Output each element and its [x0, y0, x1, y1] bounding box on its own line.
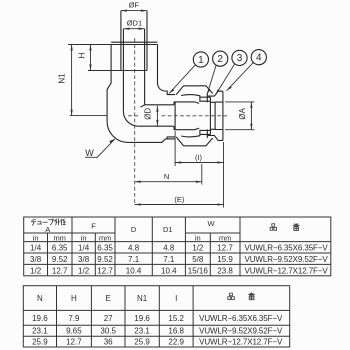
- svg-text:1/2: 1/2: [30, 267, 42, 276]
- svg-text:I: I: [175, 294, 177, 303]
- nut left skirt face: [174, 102, 176, 130]
- svg-text:VUWLR−6.35X6.35F−V: VUWLR−6.35X6.35F−V: [245, 244, 329, 253]
- callout circle 1: [169, 52, 208, 94]
- svg-text:mm: mm: [99, 234, 112, 243]
- top port bore walls D1: [123, 29, 144, 112]
- svg-text:(I): (I): [195, 153, 203, 162]
- body left edge: [107, 45, 111, 122]
- boss right edge: [158, 45, 164, 92]
- hex face arc bottom: [181, 136, 200, 137]
- svg-text:3: 3: [237, 53, 243, 64]
- bore step at ferrule: [173, 102, 175, 130]
- svg-text:D1: D1: [163, 225, 173, 234]
- callout circle 4: [227, 50, 267, 91]
- table 1 data: [30, 244, 328, 276]
- elbow inner fillet: [123, 111, 138, 126]
- svg-text:36: 36: [104, 337, 113, 346]
- svg-text:N: N: [164, 172, 169, 181]
- svg-text:16.8: 16.8: [168, 326, 184, 335]
- callout circle 3: [216, 50, 248, 95]
- dimension phiD1: [123, 19, 144, 30]
- svg-text:1/4: 1/4: [78, 244, 90, 253]
- svg-text:1/2: 1/2: [192, 244, 204, 253]
- body bottom edge: [128, 139, 175, 143]
- svg-text:ØD1: ØD1: [127, 19, 142, 28]
- ferrule lines: [200, 94, 211, 139]
- svg-text:N1: N1: [58, 73, 67, 84]
- svg-text:9.52: 9.52: [52, 255, 68, 264]
- svg-text:12.7: 12.7: [97, 267, 113, 276]
- svg-text:27: 27: [104, 314, 113, 323]
- nut skirt top: [174, 102, 199, 104]
- body outer corner arc: [107, 121, 128, 142]
- right arm bore top: [145, 104, 174, 106]
- dimension N: [135, 164, 202, 185]
- svg-text:1/2: 1/2: [78, 267, 90, 276]
- svg-text:12.7: 12.7: [52, 267, 68, 276]
- svg-text:N1: N1: [137, 294, 148, 303]
- svg-text:22.9: 22.9: [168, 337, 184, 346]
- svg-text:in: in: [33, 234, 39, 243]
- svg-text:W: W: [207, 219, 215, 228]
- svg-text:7.1: 7.1: [128, 255, 140, 264]
- svg-text:19.6: 19.6: [32, 314, 48, 323]
- nut hex top silhouette: [176, 86, 213, 95]
- svg-text:ØF: ØF: [129, 0, 140, 9]
- svg-text:9.65: 9.65: [66, 326, 82, 335]
- svg-text:2: 2: [217, 54, 223, 65]
- dimension phiA: [225, 102, 254, 130]
- svg-text:23.1: 23.1: [134, 326, 150, 335]
- boss top edge: [111, 41, 157, 43]
- table 1 grid: [24, 217, 331, 276]
- svg-text:1: 1: [198, 55, 204, 66]
- svg-text:H: H: [71, 294, 77, 303]
- svg-text:25.9: 25.9: [32, 337, 48, 346]
- svg-text:23.1: 23.1: [32, 326, 48, 335]
- tube OD label (CJK) "chuubu gaikei": [31, 219, 65, 226]
- body hex top: [164, 91, 175, 95]
- nut right step bottom: [207, 135, 223, 140]
- svg-text:W: W: [85, 148, 94, 158]
- svg-text:ØD: ØD: [144, 108, 153, 120]
- svg-text:25.9: 25.9: [134, 337, 150, 346]
- nut hex bottom silhouette: [176, 137, 213, 146]
- svg-text:12.7: 12.7: [66, 337, 82, 346]
- body hex bottom step: [167, 137, 175, 139]
- svg-text:A: A: [45, 225, 50, 234]
- svg-text:VUWLR−9.52X9.52F−V: VUWLR−9.52X9.52F−V: [245, 255, 329, 264]
- svg-text:in: in: [81, 234, 87, 243]
- svg-text:F: F: [91, 222, 96, 231]
- svg-text:1/4: 1/4: [30, 244, 42, 253]
- svg-text:15/16: 15/16: [188, 267, 209, 276]
- svg-text:VUWLR−9.52X9.52F−V: VUWLR−9.52X9.52F−V: [199, 326, 283, 335]
- horizontal centerline: [128, 115, 227, 117]
- svg-text:9.52: 9.52: [97, 255, 113, 264]
- svg-text:VUWLR−12.7X12.7F−V: VUWLR−12.7X12.7F−V: [199, 337, 283, 346]
- svg-text:7.1: 7.1: [163, 255, 175, 264]
- svg-text:7.9: 7.9: [68, 314, 80, 323]
- hex face arc top: [181, 95, 200, 96]
- svg-text:ØA: ØA: [238, 107, 247, 119]
- drawing group: [107, 11, 227, 206]
- tube hole counterbore: [210, 102, 215, 129]
- svg-text:30.5: 30.5: [100, 326, 116, 335]
- back ferrule interior: [201, 97, 211, 134]
- svg-text:6.35: 6.35: [52, 244, 68, 253]
- svg-text:23.8: 23.8: [217, 267, 233, 276]
- top port socket walls: [121, 11, 147, 71]
- nut right step top: [207, 91, 223, 96]
- svg-text:3/8: 3/8: [30, 255, 42, 264]
- label W leader: [85, 139, 115, 158]
- dimension phiF: [121, 0, 147, 11]
- dimension N1: [58, 45, 108, 116]
- svg-text:D: D: [131, 225, 137, 234]
- svg-text:mm: mm: [219, 234, 232, 243]
- svg-text:4.8: 4.8: [163, 244, 175, 253]
- svg-text:10.4: 10.4: [126, 267, 142, 276]
- dimension I: [175, 131, 223, 208]
- svg-text:10.4: 10.4: [161, 267, 177, 276]
- svg-text:15.2: 15.2: [168, 314, 184, 323]
- socket bottom: [121, 70, 147, 72]
- table 2 texts: [32, 294, 283, 347]
- svg-text:VUWLR−12.7X12.7F−V: VUWLR−12.7X12.7F−V: [245, 267, 329, 276]
- bore top corner chamfer: [141, 105, 145, 107]
- svg-text:6.35: 6.35: [97, 244, 113, 253]
- svg-text:5/8: 5/8: [192, 255, 204, 264]
- svg-text:H: H: [78, 52, 87, 58]
- right arm bore bottom: [138, 125, 174, 127]
- svg-text:(E): (E): [174, 195, 185, 204]
- table 2 grid: [23, 286, 289, 347]
- table 1 header texts: [31, 219, 231, 243]
- callout circle 2: [207, 51, 228, 94]
- dimension E: [135, 195, 224, 206]
- hinban (part number) CJK header table 2: [228, 293, 255, 300]
- svg-text:4: 4: [256, 53, 262, 64]
- svg-text:4.8: 4.8: [128, 244, 140, 253]
- svg-text:19.6: 19.6: [134, 314, 150, 323]
- tube hole edges: [215, 102, 223, 129]
- svg-text:mm: mm: [53, 234, 66, 243]
- svg-text:VUWLR−6.35X6.35F−V: VUWLR−6.35X6.35F−V: [199, 314, 283, 323]
- svg-text:3/8: 3/8: [78, 255, 90, 264]
- nut right face: [222, 91, 224, 140]
- svg-text:12.7: 12.7: [217, 244, 233, 253]
- svg-text:15.9: 15.9: [217, 255, 233, 264]
- boss top inner line: [111, 44, 157, 46]
- dimension H: [68, 45, 147, 71]
- svg-text:in: in: [195, 234, 201, 243]
- dimension phiD: [144, 106, 159, 126]
- nut skirt bottom: [174, 128, 199, 130]
- svg-text:E: E: [106, 294, 111, 303]
- vertical centerline: [134, 38, 136, 206]
- hinban (part number) CJK header table 1: [270, 224, 299, 231]
- svg-text:N: N: [37, 294, 43, 303]
